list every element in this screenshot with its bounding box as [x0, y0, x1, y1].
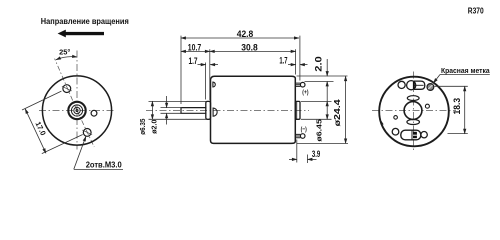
center mark hole 1 [62, 86, 72, 91]
front bearing boss [206, 101, 211, 119]
svg-text:1.7: 1.7 [279, 56, 287, 66]
dim 42.8 [181, 37, 299, 39]
ext line body left [209, 49, 211, 100]
rim notch [381, 121, 383, 124]
terminal minus eyelet [300, 134, 305, 139]
25 deg arc with arrows [56, 57, 77, 60]
svg-text:2отв.М3.0: 2отв.М3.0 [86, 160, 123, 169]
red mark [427, 84, 434, 91]
minus terminal in bottom slot [413, 132, 417, 138]
centerline horizontal [39, 110, 116, 112]
dimensions of middle view [181, 36, 308, 104]
top-left hole [398, 81, 405, 88]
right-mid hole [425, 104, 429, 108]
crimp tab top [213, 82, 215, 87]
dim o24.4 ext lines [297, 142, 348, 144]
svg-text:(−): (−) [301, 126, 307, 133]
dim 3.9 ext line [296, 140, 298, 163]
mounting hole 1 [63, 85, 71, 93]
ext line boss left [205, 63, 207, 100]
mounting hole 2 [83, 129, 91, 137]
ext line shaft tip [180, 36, 182, 104]
rotation arrow (thick, pointing left) [58, 30, 104, 38]
svg-text:10.7: 10.7 [188, 43, 201, 53]
svg-text:2.0: 2.0 [313, 56, 323, 72]
dim 30.8 [210, 50, 296, 52]
rear bearing circle [404, 102, 422, 120]
radial dashed line through hole 2 [77, 111, 94, 148]
center mark hole 2 [82, 130, 92, 135]
left-mid hole [394, 116, 398, 120]
dimension 18.3 [435, 86, 468, 133]
endcap bearing boss [295, 101, 300, 119]
svg-text:Направление вращения: Направление вращения [41, 16, 129, 26]
dim o6.35 ext lines [149, 100, 207, 102]
svg-text:1.7: 1.7 [188, 56, 197, 66]
svg-text:30.8: 30.8 [241, 42, 258, 52]
motor body [211, 76, 296, 143]
svg-text:Красная метка: Красная метка [441, 66, 491, 75]
svg-text:42.8: 42.8 [237, 29, 254, 39]
shaft [181, 108, 207, 114]
svg-text:R370: R370 [468, 7, 484, 16]
svg-text:ø24.4: ø24.4 [332, 99, 342, 126]
dim 1.7 left (arrows outside) [198, 64, 206, 66]
top terminal slot [414, 81, 425, 89]
svg-text:ø6.45: ø6.45 [315, 118, 324, 141]
dim o2.0 arrows outside [166, 96, 168, 108]
svg-text:ø6.35: ø6.35 [138, 119, 147, 135]
vent lens top [407, 96, 419, 101]
svg-text:25°: 25° [59, 48, 70, 57]
centerline horizontal [372, 109, 456, 111]
svg-text:3.9: 3.9 [312, 149, 320, 159]
rear outer circle [379, 77, 449, 147]
svg-text:18.3: 18.3 [452, 98, 462, 115]
radial dashed line to hole 1 (25 deg) [55, 59, 77, 111]
dim 2.0 ext lines [297, 75, 348, 77]
terminal minus strip [295, 134, 300, 137]
dim o6.45 ext lines [301, 100, 332, 102]
leader to mounting holes [74, 136, 123, 169]
ring 2 [71, 105, 82, 116]
bottom terminal slot [401, 130, 421, 140]
bottom-right hole [421, 132, 427, 138]
shaft center [76, 109, 78, 111]
dimension line [25, 109, 46, 153]
centerline [146, 109, 309, 111]
small hole right of center [91, 110, 97, 116]
dim o2.0 ext lines [161, 107, 183, 109]
vent lens bottom [407, 120, 420, 125]
dim 1.7 right (arrows outside) [288, 64, 296, 66]
motor body outer circle [42, 76, 111, 145]
dimension 17.0 (hole spacing) [22, 91, 83, 154]
ring 3 [74, 107, 80, 113]
bottom-left hole [392, 128, 399, 135]
crimp tab center [213, 108, 217, 116]
shaft boss ring (bold) [68, 102, 85, 119]
extension line from hole 2 [42, 135, 83, 154]
dim 2.0 arrows outside [326, 59, 328, 76]
svg-text:ø2.0: ø2.0 [150, 120, 159, 134]
ext line cap right [299, 36, 301, 81]
terminal plus strip [295, 83, 300, 86]
svg-text:(+): (+) [302, 89, 308, 96]
dim 3.9 arrows outside [289, 158, 297, 160]
leader red mark [433, 75, 489, 84]
plus terminal bar in top slot [413, 82, 415, 89]
endcap boss inner line [296, 101, 298, 119]
dim 10.7 [181, 50, 210, 52]
ext line body right [295, 49, 297, 74]
dim o6.35 line [151, 101, 153, 119]
centerline vertical [412, 72, 414, 152]
terminal plus eyelet [300, 82, 305, 87]
dim o24.4 line [345, 76, 347, 143]
centerline vertical [76, 51, 78, 150]
dim o6.45 line [326, 101, 328, 119]
extension line from hole 1 [22, 91, 61, 110]
